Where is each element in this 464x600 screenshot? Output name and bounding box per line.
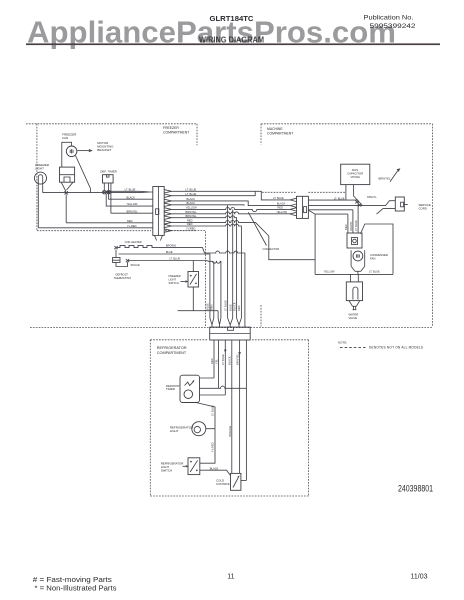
wire switch top to heater lt.blue bbox=[192, 261, 194, 272]
machine compartment dashed boundary bbox=[261, 124, 433, 327]
svg-text:WIRING DIAGRAM: WIRING DIAGRAM bbox=[199, 35, 264, 44]
refrigerator light label bbox=[170, 426, 194, 434]
connector bottom funnel bbox=[155, 235, 163, 240]
wire RED from connector bbox=[308, 209, 353, 211]
wire RED r8 long route to machine area bbox=[172, 220, 316, 259]
svg-text:11/03: 11/03 bbox=[411, 574, 428, 581]
freezer fan door switch bbox=[60, 167, 75, 182]
compressor housing outline bbox=[361, 224, 394, 274]
freezer fan mounting bracket hanger wire bbox=[62, 142, 72, 167]
svg-text:FAN: FAN bbox=[370, 257, 375, 261]
vertical wire v4 from r5 level bbox=[232, 209, 234, 318]
wire BLACK from connector to service cord bbox=[308, 201, 395, 206]
svg-text:COMPARTMENT: COMPARTMENT bbox=[163, 131, 189, 135]
svg-text:TIMER: TIMER bbox=[166, 387, 175, 391]
control box feed wires bbox=[200, 378, 247, 395]
wire LT.BLUE r1 to 2nd connector bbox=[172, 191, 297, 201]
svg-text:SPLICE: SPLICE bbox=[131, 263, 140, 267]
svg-text:BRN/YEL: BRN/YEL bbox=[186, 210, 198, 214]
svg-text:BLACK: BLACK bbox=[228, 356, 232, 365]
vertical wire v3 from r4 level bbox=[227, 205, 229, 318]
condenser fan motor bbox=[353, 251, 363, 261]
wire right feed into cold control bbox=[241, 480, 247, 482]
svg-text:YELLOW: YELLOW bbox=[324, 269, 335, 273]
labels right of central connector bbox=[186, 187, 198, 230]
defrost thermostat bbox=[113, 258, 121, 263]
funnels converging into lower connector bbox=[210, 318, 245, 327]
svg-text:ORG/YL: ORG/YL bbox=[367, 195, 377, 199]
wire LT.BLUE r2 joining r1 bbox=[172, 191, 256, 195]
timer terminal leads bbox=[104, 183, 111, 213]
wire LT.BLUE timer to connector bbox=[106, 190, 140, 192]
left funnel lt.blue pair bbox=[140, 191, 153, 192]
publication number bbox=[364, 14, 416, 30]
wire LT.BLUE from connector to relay drop bbox=[308, 199, 358, 201]
wire BROWN with coil heater element bbox=[117, 245, 245, 318]
svg-text:LT. BLUE: LT. BLUE bbox=[221, 354, 225, 365]
svg-text:BLACK: BLACK bbox=[187, 197, 196, 201]
dashed optional wire to capacitor bbox=[262, 191, 346, 193]
svg-text:BRN/YEL: BRN/YEL bbox=[379, 177, 391, 181]
water valve bbox=[346, 282, 362, 301]
rotated wire labels above lower connector bbox=[206, 300, 242, 311]
note: denotes not on all models bbox=[338, 341, 423, 350]
vertical harness wire to lower connector bbox=[217, 311, 219, 318]
svg-text:FAN: FAN bbox=[62, 136, 68, 140]
capacitor lead 1 bbox=[345, 185, 347, 201]
svg-text:BRN/YEL: BRN/YEL bbox=[236, 353, 240, 365]
svg-text:LT. BLUE: LT. BLUE bbox=[354, 220, 358, 231]
cabinet section divider dashed line bbox=[30, 327, 432, 329]
svg-text:NOTE:: NOTE: bbox=[338, 341, 347, 345]
wire light to switch bbox=[200, 429, 215, 464]
BRN/YEL label with arrow near capacitor bbox=[379, 168, 401, 181]
defrost thermostat label bbox=[114, 273, 132, 280]
svg-text:YL/RED: YL/RED bbox=[186, 227, 195, 231]
lower wall connector bbox=[210, 327, 251, 340]
svg-text:BRACKET: BRACKET bbox=[97, 148, 111, 152]
arrowheads on harness wires bbox=[224, 350, 241, 356]
defrost timer bbox=[103, 175, 114, 183]
svg-text:SWITCH: SWITCH bbox=[169, 281, 179, 285]
svg-text:MACHINE: MACHINE bbox=[267, 127, 283, 131]
svg-text:BLACK: BLACK bbox=[232, 302, 236, 311]
control thermostat box bbox=[180, 375, 200, 402]
svg-text:BRN/YEL: BRN/YEL bbox=[127, 209, 139, 213]
svg-text:BLACK: BLACK bbox=[210, 466, 219, 470]
svg-text:DENOTES NOT ON ALL MODELS: DENOTES NOT ON ALL MODELS bbox=[369, 346, 423, 350]
splice X at lt.blue heater wire bbox=[126, 259, 129, 262]
svg-text:ORG/YL: ORG/YL bbox=[349, 221, 353, 231]
svg-text:YL-RED: YL-RED bbox=[211, 442, 215, 452]
svg-text:LT. BLUE: LT. BLUE bbox=[223, 300, 227, 311]
service cord label bbox=[419, 203, 431, 210]
svg-text:BLUE: BLUE bbox=[166, 250, 173, 254]
svg-text:LT. BLUE: LT. BLUE bbox=[125, 187, 136, 191]
labels at left of second connector bbox=[273, 196, 288, 214]
wire defrost thermostat drop bbox=[116, 250, 128, 267]
svg-text:FREEZER: FREEZER bbox=[169, 274, 181, 278]
refrigerator light switch label bbox=[161, 462, 189, 473]
wire YELLOW timer to connector bbox=[106, 194, 153, 206]
timer terminal splice circles bbox=[103, 190, 111, 194]
rotated harness labels bbox=[210, 353, 240, 365]
svg-text:5995399242: 5995399242 bbox=[370, 23, 416, 30]
wire BLACK r4 joining r3 bbox=[172, 204, 245, 207]
wire lt.blue light lead run bbox=[43, 192, 140, 194]
svg-text:YELLOW: YELLOW bbox=[186, 206, 197, 210]
svg-text:RED: RED bbox=[278, 206, 284, 210]
wire BRN/YEL r7 turning down bbox=[172, 216, 237, 318]
svg-text:COIL HEATER: COIL HEATER bbox=[125, 240, 142, 244]
svg-text:FREEZER: FREEZER bbox=[163, 126, 179, 130]
svg-text:DEF. TIMER: DEF. TIMER bbox=[100, 169, 117, 173]
svg-text:ORANGE: ORANGE bbox=[228, 425, 232, 437]
freezer light switch label with arrow bbox=[169, 274, 189, 285]
second wall connector (double) bbox=[297, 196, 309, 218]
freezer light label bbox=[35, 163, 50, 170]
switch lead funnel to splice bbox=[61, 182, 73, 191]
freezer light lamp bbox=[35, 172, 47, 228]
svg-text:BLACK: BLACK bbox=[277, 202, 286, 206]
service cord plug bbox=[395, 197, 408, 211]
wire switch bottom run bbox=[178, 287, 219, 311]
wire fan to timer area (diagonal) bbox=[76, 156, 91, 193]
wire RED r9 turning down bbox=[172, 224, 242, 318]
svg-text:BLUE: BLUE bbox=[229, 304, 233, 311]
wire LT.BLUE heater circuit with hop bbox=[128, 261, 221, 319]
svg-text:COMPARTMENT: COMPARTMENT bbox=[267, 132, 293, 136]
condenser fan bracket bbox=[351, 250, 365, 266]
wire spur to service cord lower prong bbox=[377, 209, 396, 215]
svg-text:BLUE: BLUE bbox=[206, 303, 210, 310]
run capacitor bbox=[341, 164, 370, 184]
svg-text:* = Non-Illustrated Parts: * = Non-Illustrated Parts bbox=[35, 586, 118, 593]
svg-text:REFRIGERATOR: REFRIGERATOR bbox=[157, 346, 187, 350]
condenser fan label bbox=[370, 253, 388, 260]
svg-text:# = Fast-moving Parts: # = Fast-moving Parts bbox=[33, 577, 113, 584]
refrigerator light switch bbox=[188, 458, 200, 475]
watermark AppliancePartsPros.com bbox=[26, 16, 440, 50]
svg-text:BLACK: BLACK bbox=[127, 195, 136, 199]
freezer compartment dashed boundary bbox=[26, 124, 197, 231]
wire switch splice down to red wire bbox=[65, 194, 67, 222]
svg-text:VIKING: VIKING bbox=[350, 175, 359, 179]
central wall connector bbox=[153, 187, 164, 236]
arrow from fan to bracket label bbox=[77, 149, 93, 152]
harness wires below lower connector bbox=[214, 340, 246, 481]
svg-text:LT. BLUE: LT. BLUE bbox=[369, 269, 380, 273]
freezer fan label bbox=[62, 132, 77, 140]
defrost timer label (fresh food) bbox=[166, 384, 180, 391]
freezer light switch bbox=[188, 272, 199, 288]
svg-text:RED: RED bbox=[187, 219, 193, 223]
water valve lead funnel and terminal bbox=[349, 301, 360, 310]
cold control thermostat bbox=[231, 473, 241, 490]
svg-text:YL-RED: YL-RED bbox=[127, 224, 137, 228]
wire YELLOW from connector with branch down bbox=[308, 210, 348, 274]
wires dropping to compressor relay bbox=[348, 200, 358, 233]
water valve feed wires bbox=[351, 274, 359, 282]
wire BRN/YEL r6 to 2nd connector bbox=[172, 212, 297, 216]
condenser fan lead funnel bbox=[351, 266, 365, 274]
svg-text:BLACK: BLACK bbox=[187, 201, 196, 205]
wire control to refrigerator light bbox=[196, 403, 215, 429]
motor mounting bracket label bbox=[97, 141, 114, 152]
svg-text:COMPARTMENT: COMPARTMENT bbox=[157, 351, 187, 355]
svg-text:VALVE: VALVE bbox=[349, 316, 358, 320]
svg-text:CONNECTOR: CONNECTOR bbox=[263, 247, 280, 251]
svg-text:LIGHT: LIGHT bbox=[35, 167, 44, 171]
svg-text:RED: RED bbox=[210, 358, 214, 364]
svg-text:CONTROL: CONTROL bbox=[216, 482, 231, 486]
svg-text:THERMOSTAT: THERMOSTAT bbox=[114, 276, 132, 280]
svg-text:11: 11 bbox=[227, 574, 234, 581]
svg-text:YELLOW: YELLOW bbox=[127, 202, 138, 206]
wire BLUE heater return bbox=[119, 254, 210, 318]
svg-text:RED: RED bbox=[127, 219, 133, 223]
svg-text:RED: RED bbox=[237, 305, 241, 311]
wire BLACK switch to cold control bbox=[200, 470, 231, 475]
svg-text:LT. BLUE: LT. BLUE bbox=[334, 197, 345, 201]
svg-text:BROWN: BROWN bbox=[166, 244, 176, 248]
svg-text:YELLOW: YELLOW bbox=[276, 210, 287, 214]
svg-text:BRN: BRN bbox=[210, 304, 214, 310]
cold control label bbox=[216, 479, 231, 486]
wire BRN/YEL timer to connector bbox=[111, 212, 153, 214]
svg-text:RED: RED bbox=[344, 224, 348, 230]
svg-text:LIGHT: LIGHT bbox=[169, 278, 177, 282]
wire branch brown harness down bbox=[213, 261, 215, 318]
svg-text:CORD: CORD bbox=[419, 206, 427, 210]
svg-text:YEL: YEL bbox=[214, 359, 218, 364]
svg-text:LIGHT: LIGHT bbox=[170, 429, 179, 433]
freezer fan motor bbox=[66, 146, 77, 157]
svg-text:DEFROST: DEFROST bbox=[116, 273, 129, 277]
svg-text:240398801: 240398801 bbox=[398, 484, 433, 494]
svg-text:LT. BLUE: LT. BLUE bbox=[186, 192, 197, 196]
wire YL-RED light to connector bbox=[38, 227, 153, 229]
splice X on brown wire bbox=[114, 246, 117, 249]
rotated wire labels above relay bbox=[344, 220, 358, 231]
splice X marks near capacitor leads bbox=[355, 200, 361, 206]
svg-text:SWITCH: SWITCH bbox=[161, 468, 172, 472]
wire YELLOW bottom run bbox=[315, 273, 393, 275]
refrigerator light lamp bbox=[192, 422, 206, 436]
svg-text:BRN/YEL: BRN/YEL bbox=[186, 214, 198, 218]
svg-text:LT. BLUE: LT. BLUE bbox=[169, 257, 180, 261]
svg-text:LT. BLUE: LT. BLUE bbox=[186, 187, 197, 191]
compressor relay/overload bbox=[347, 233, 362, 248]
right-side funnels of central connector bbox=[164, 190, 171, 233]
svg-text:Publication No.: Publication No. bbox=[364, 14, 414, 21]
wire YL/RED r10 dashed optional circuit bbox=[172, 231, 206, 328]
splice X at light wire junction bbox=[65, 191, 68, 194]
capacitor lead 2 with diagonal bbox=[354, 185, 362, 205]
wire BLACK timer to connector bbox=[109, 197, 153, 199]
wire YELLOW r5 with crossover dip to 2nd connector bbox=[172, 208, 297, 212]
wire BLACK r3 to 2nd connector bbox=[172, 201, 297, 207]
wire RED switch to connector bbox=[66, 222, 153, 224]
refrigerator compartment dashed boundary bbox=[150, 340, 308, 496]
svg-text:GLRT184TC: GLRT184TC bbox=[210, 14, 255, 23]
connector pointer label bbox=[248, 212, 279, 251]
svg-text:LT. BLUE: LT. BLUE bbox=[273, 196, 284, 200]
svg-text:LT. BLUE: LT. BLUE bbox=[211, 405, 215, 416]
water valve label bbox=[349, 312, 359, 319]
